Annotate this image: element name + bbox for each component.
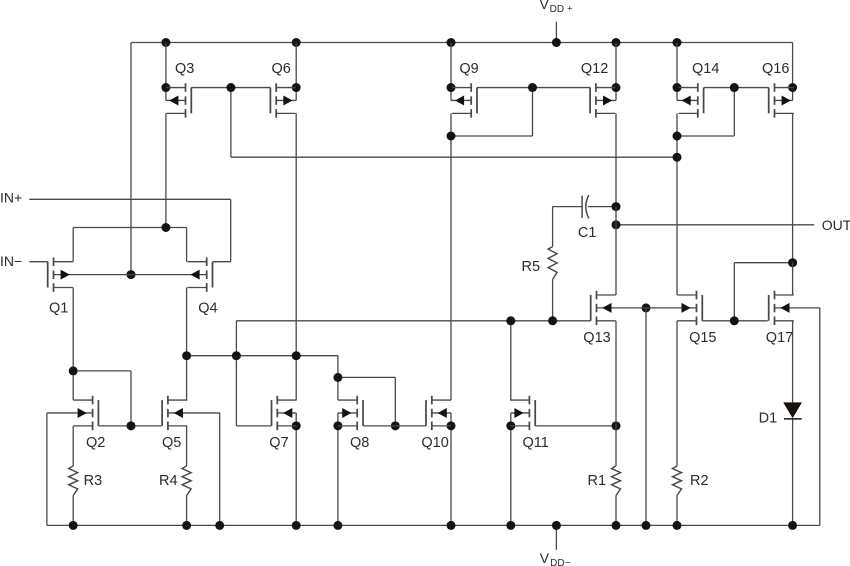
wire	[235, 321, 237, 426]
junction	[612, 421, 621, 430]
wire	[552, 207, 554, 247]
wire	[295, 356, 297, 400]
junction	[447, 83, 456, 92]
transistor Q2	[92, 396, 94, 405]
resistor R5	[548, 247, 557, 280]
junction	[391, 421, 400, 430]
resistor R4	[182, 466, 191, 496]
svg-text:V: V	[540, 0, 550, 12]
wire	[792, 419, 794, 526]
svg-text:D1: D1	[759, 411, 778, 427]
junction	[788, 83, 797, 92]
junction	[226, 83, 235, 92]
wire	[191, 87, 270, 89]
wire	[819, 308, 821, 526]
svg-text:Q13: Q13	[583, 330, 610, 346]
wire	[130, 371, 132, 426]
junction	[730, 316, 739, 325]
junction	[447, 132, 456, 141]
svg-text:+: +	[567, 3, 573, 14]
wire	[734, 262, 792, 264]
diode D1	[783, 402, 802, 418]
svg-text:Q5: Q5	[162, 435, 181, 451]
wire	[532, 88, 534, 136]
wire	[186, 288, 188, 356]
junction	[333, 521, 342, 530]
wire	[676, 321, 678, 466]
wire	[219, 413, 221, 525]
wire	[615, 496, 617, 526]
wire	[338, 376, 395, 378]
junction	[292, 83, 301, 92]
junction	[612, 38, 621, 47]
junction	[552, 38, 561, 47]
wire	[295, 426, 297, 526]
svg-text:V: V	[540, 550, 550, 566]
junction	[506, 521, 515, 530]
wire	[510, 413, 512, 426]
wire	[676, 496, 678, 526]
transistor Q10	[431, 396, 433, 405]
wire VDD+ rail	[131, 42, 793, 44]
wire	[213, 261, 231, 263]
junction	[673, 521, 682, 530]
svg-text:Q11: Q11	[523, 435, 549, 451]
junction	[673, 38, 682, 47]
wire	[552, 279, 554, 320]
transistor Q15	[696, 291, 698, 300]
svg-text:Q15: Q15	[689, 330, 716, 346]
svg-text:Q3: Q3	[175, 61, 194, 77]
wire	[615, 88, 617, 101]
wire	[230, 199, 232, 261]
wire	[676, 43, 678, 88]
junction	[506, 316, 515, 325]
junction	[612, 521, 621, 530]
wire	[72, 496, 74, 526]
wire	[450, 88, 452, 101]
junction	[292, 421, 301, 430]
transistor Q13	[596, 291, 598, 300]
svg-text:Q16: Q16	[762, 61, 789, 77]
wire	[236, 320, 590, 322]
svg-text:Q9: Q9	[459, 61, 478, 77]
wire	[230, 88, 232, 158]
junction	[292, 521, 301, 530]
wire	[46, 413, 48, 525]
wire	[510, 321, 512, 400]
capacitor C1	[581, 196, 583, 218]
svg-text:R3: R3	[84, 473, 103, 489]
junction	[161, 38, 170, 47]
wire	[645, 308, 647, 526]
wire	[295, 413, 297, 426]
wire	[733, 263, 735, 321]
transistor Q16	[774, 83, 776, 92]
wire	[450, 413, 452, 426]
wire	[615, 43, 617, 88]
svg-text:OUT: OUT	[822, 217, 850, 233]
junction	[612, 220, 621, 229]
wire	[510, 426, 512, 526]
power VDD- terminal stub	[555, 525, 557, 550]
wire	[98, 425, 161, 427]
junction	[182, 521, 191, 530]
wire	[676, 157, 678, 295]
junction	[730, 83, 739, 92]
wire	[792, 321, 794, 403]
wire	[295, 88, 297, 101]
junction	[182, 351, 191, 360]
junction	[215, 521, 224, 530]
junction	[447, 421, 456, 430]
svg-text:Q1: Q1	[49, 301, 68, 317]
junction	[127, 421, 136, 430]
junction	[447, 38, 456, 47]
wire	[677, 135, 734, 137]
wire	[165, 113, 167, 227]
svg-text:Q4: Q4	[198, 301, 217, 317]
wire	[72, 288, 74, 371]
svg-text:DD: DD	[550, 558, 564, 566]
junction	[161, 223, 170, 232]
junction	[333, 421, 342, 430]
svg-text:Q12: Q12	[581, 61, 608, 77]
junction	[612, 202, 621, 211]
wire	[535, 425, 616, 427]
transistor Q8	[356, 396, 358, 405]
transistor Q4	[206, 257, 208, 266]
junction	[642, 303, 651, 312]
wire	[186, 496, 188, 526]
wire	[73, 370, 131, 372]
junction	[528, 83, 537, 92]
wire	[363, 425, 426, 427]
wire	[615, 207, 617, 225]
transistor Q6	[275, 83, 277, 92]
junction	[673, 132, 682, 141]
wire	[704, 87, 769, 89]
svg-text:R4: R4	[159, 473, 178, 489]
transistor Q1	[53, 257, 55, 266]
wire	[72, 426, 74, 466]
junction	[127, 270, 136, 279]
junction	[447, 521, 456, 530]
svg-text:IN−: IN−	[0, 253, 22, 269]
junction	[69, 366, 78, 375]
wire IN+ lead	[29, 198, 230, 200]
wire	[477, 87, 590, 89]
resistor R2	[673, 466, 682, 496]
transistor Q9	[470, 83, 472, 92]
wire	[337, 413, 339, 426]
wire	[615, 113, 617, 206]
svg-text:DD: DD	[550, 4, 564, 15]
svg-text:R1: R1	[588, 473, 607, 489]
svg-text:R2: R2	[690, 473, 709, 489]
wire	[295, 43, 297, 88]
transistor Q14	[697, 83, 699, 92]
wire	[72, 228, 74, 262]
junction	[673, 153, 682, 162]
wire	[337, 426, 339, 526]
wire	[231, 156, 677, 158]
svg-text:R5: R5	[522, 259, 541, 275]
junction	[642, 521, 651, 530]
junction	[788, 521, 797, 530]
svg-text:Q14: Q14	[692, 61, 719, 77]
junction	[612, 83, 621, 92]
junction	[552, 521, 561, 530]
wire	[676, 113, 678, 136]
wire	[450, 43, 452, 88]
wire	[186, 426, 188, 466]
wire	[792, 43, 794, 88]
transistor Q11	[528, 396, 530, 405]
power VDD+ terminal stub	[555, 22, 557, 43]
wire	[733, 88, 735, 136]
junction	[232, 351, 241, 360]
svg-text:Q8: Q8	[350, 435, 369, 451]
svg-text:Q17: Q17	[766, 330, 793, 346]
junction	[788, 258, 797, 267]
svg-text:C1: C1	[578, 225, 597, 241]
wire	[676, 136, 678, 157]
resistor R1	[612, 466, 621, 496]
wire	[615, 426, 617, 466]
wire OUT lead	[616, 224, 814, 226]
junction	[333, 373, 342, 382]
junction	[673, 83, 682, 92]
wire	[615, 321, 617, 426]
wire	[236, 425, 271, 427]
transistor Q5	[167, 396, 169, 405]
wire	[553, 206, 583, 208]
svg-text:Q2: Q2	[86, 435, 105, 451]
junction	[292, 38, 301, 47]
wire	[337, 356, 339, 400]
svg-text:IN+: IN+	[0, 190, 22, 206]
wire	[394, 377, 396, 425]
junction	[161, 83, 170, 92]
wire	[702, 320, 768, 322]
wire VDD- rail	[47, 524, 820, 526]
junction	[292, 351, 301, 360]
wire	[450, 113, 452, 136]
wire	[792, 113, 794, 262]
junction	[506, 421, 515, 430]
junction	[69, 521, 78, 530]
wire	[73, 227, 186, 229]
wire	[130, 43, 132, 275]
junction	[548, 316, 557, 325]
transistor Q3	[185, 83, 187, 92]
wire	[165, 43, 167, 88]
wire	[186, 356, 188, 400]
svg-text:−: −	[565, 558, 571, 566]
wire	[676, 88, 678, 101]
svg-text:Q10: Q10	[421, 435, 448, 451]
wire	[792, 263, 794, 295]
wire	[451, 135, 533, 137]
transistor Q12	[595, 83, 597, 92]
wire	[450, 136, 452, 400]
wire	[165, 88, 167, 101]
svg-text:Q7: Q7	[269, 435, 288, 451]
transistor Q7	[276, 396, 278, 405]
wire	[295, 113, 297, 355]
wire IN- lead	[29, 261, 47, 263]
wire	[450, 426, 452, 526]
wire	[588, 206, 616, 208]
wire	[615, 225, 617, 295]
svg-text:Q6: Q6	[272, 61, 291, 77]
wire	[72, 371, 74, 400]
wire	[186, 228, 188, 262]
wire	[187, 355, 338, 357]
resistor R3	[69, 466, 78, 496]
transistor Q17	[774, 291, 776, 300]
wire	[792, 88, 794, 101]
